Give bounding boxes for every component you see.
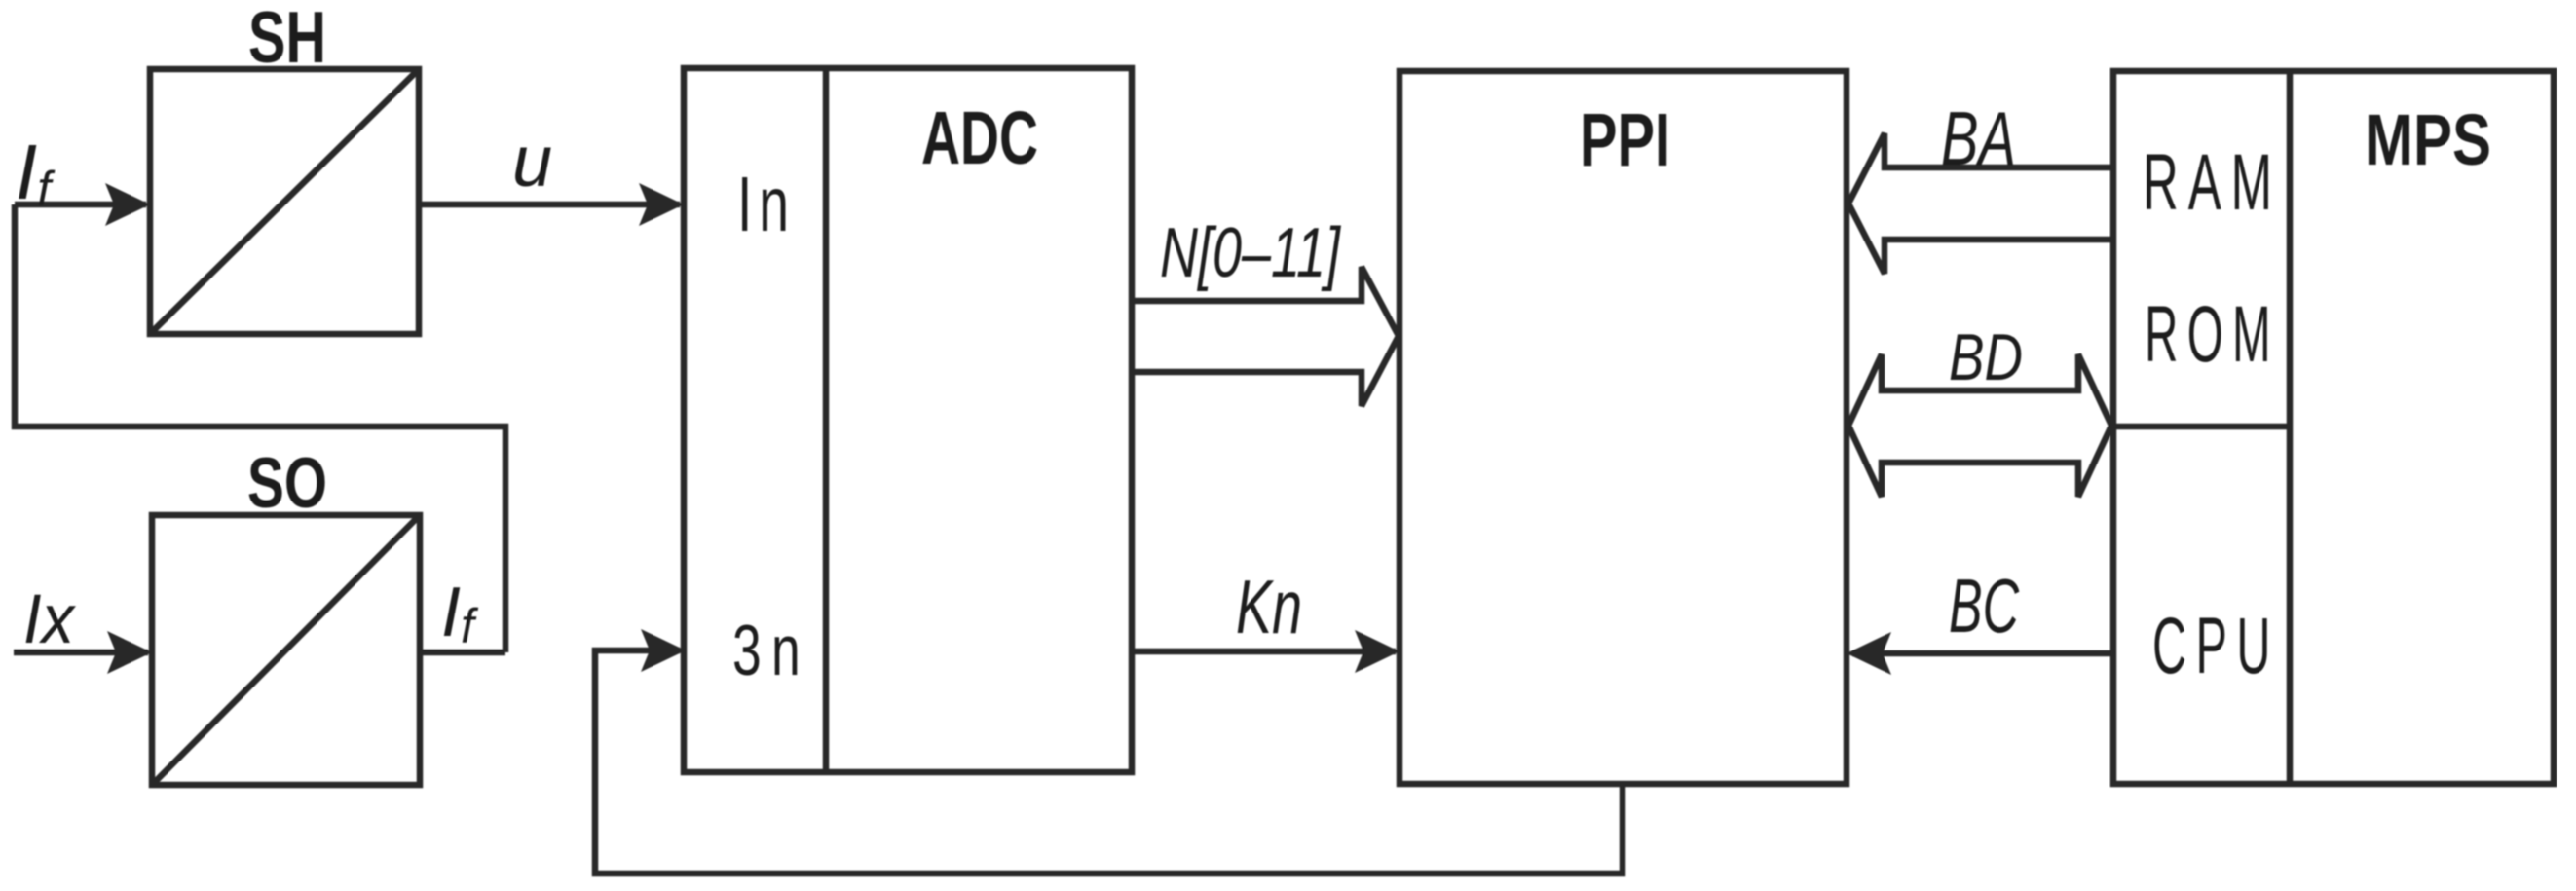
svg-text:RAM: RAM [2143,138,2282,227]
svg-text:BA: BA [1941,95,2016,181]
svg-text:ROM: ROM [2145,290,2280,379]
svg-text:u: u [512,121,552,202]
svg-text:SO: SO [247,444,327,523]
svg-text:BD: BD [1949,320,2023,394]
svg-text:BC: BC [1949,563,2019,649]
svg-text:3n: 3n [732,612,810,690]
svg-text:Ix: Ix [23,581,76,658]
svg-text:Kn: Kn [1236,564,1302,650]
svg-text:PPI: PPI [1580,98,1670,182]
svg-text:ADC: ADC [921,96,1038,180]
svg-text:N[0–11]: N[0–11] [1160,214,1341,292]
svg-text:CPU: CPU [2152,602,2280,690]
svg-text:MPS: MPS [2365,99,2491,180]
svg-text:SH: SH [248,0,326,78]
svg-text:In: In [737,161,796,247]
